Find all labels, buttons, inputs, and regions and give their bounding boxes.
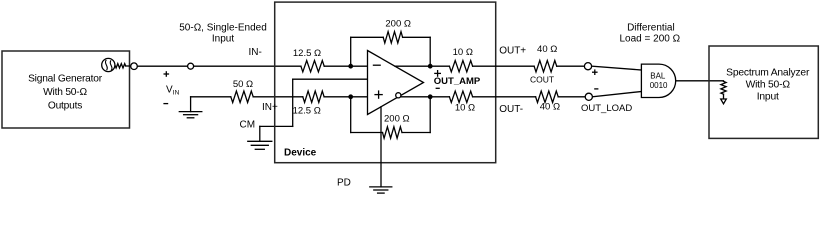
svg-text:Device: Device bbox=[284, 148, 317, 159]
svg-text:OUT_LOAD: OUT_LOAD bbox=[581, 103, 632, 114]
svg-text:0010: 0010 bbox=[650, 81, 668, 90]
svg-text:50 Ω: 50 Ω bbox=[233, 79, 253, 90]
svg-text:Load = 200 Ω: Load = 200 Ω bbox=[620, 33, 681, 44]
svg-text:Differential: Differential bbox=[627, 22, 675, 33]
svg-text:Signal Generator: Signal Generator bbox=[28, 74, 103, 85]
svg-text:200 Ω: 200 Ω bbox=[384, 113, 410, 124]
svg-text:200 Ω: 200 Ω bbox=[385, 19, 411, 30]
svg-text:With 50-Ω: With 50-Ω bbox=[746, 80, 791, 91]
svg-text:40 Ω: 40 Ω bbox=[537, 44, 557, 55]
svg-text:Input: Input bbox=[757, 92, 779, 103]
svg-text:12.5 Ω: 12.5 Ω bbox=[293, 106, 321, 117]
svg-text:CM: CM bbox=[240, 119, 256, 130]
svg-text:OUT-: OUT- bbox=[499, 104, 523, 115]
svg-text:BAL: BAL bbox=[650, 72, 666, 81]
svg-text:Outputs: Outputs bbox=[48, 101, 82, 112]
svg-text:IN+: IN+ bbox=[262, 102, 278, 113]
svg-text:With 50-Ω: With 50-Ω bbox=[43, 87, 87, 98]
svg-text:Input: Input bbox=[212, 33, 234, 44]
svg-text:40 Ω: 40 Ω bbox=[540, 101, 560, 112]
svg-text:12.5 Ω: 12.5 Ω bbox=[293, 48, 321, 59]
svg-text:IN: IN bbox=[173, 89, 180, 96]
svg-text:COUT: COUT bbox=[530, 74, 554, 84]
svg-text:10 Ω: 10 Ω bbox=[453, 47, 473, 58]
svg-text:OUT_AMP: OUT_AMP bbox=[434, 76, 481, 87]
svg-text:10 Ω: 10 Ω bbox=[455, 102, 475, 113]
svg-text:50-Ω, Single-Ended: 50-Ω, Single-Ended bbox=[179, 23, 267, 34]
svg-text:PD: PD bbox=[337, 178, 351, 189]
svg-text:OUT+: OUT+ bbox=[499, 46, 526, 57]
svg-text:IN-: IN- bbox=[249, 47, 262, 58]
svg-text:Spectrum Analyzer: Spectrum Analyzer bbox=[726, 68, 810, 79]
